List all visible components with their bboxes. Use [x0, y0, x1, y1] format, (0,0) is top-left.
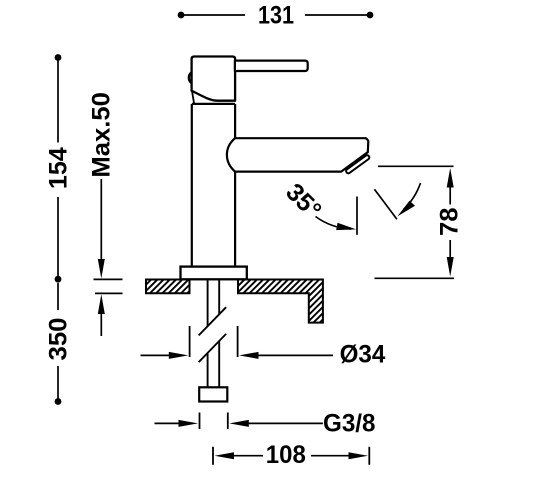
dimension G3/8 left arrow: [155, 420, 199, 427]
pipe break slash 1: [199, 307, 226, 335]
handle joint slanted line: [192, 91, 194, 104]
dimension Max.50 upper arrow: [98, 179, 105, 279]
svg-text:108: 108: [266, 441, 306, 469]
svg-text:78: 78: [436, 207, 464, 236]
svg-text:G3/8: G3/8: [323, 410, 376, 438]
angle 35 leader arc with arrow: [316, 217, 357, 231]
dimension 154/350 line: [57, 58, 59, 402]
svg-text:350: 350: [45, 318, 73, 361]
dimension 108 right arrow: [311, 452, 368, 459]
water stream arc with arrow: [397, 183, 420, 216]
dimension 78 upper arrow: [447, 168, 454, 205]
dimension 131 end dots: [178, 12, 185, 19]
dimension 154/350 dots: [55, 54, 62, 61]
dimension G3/8 extension ticks: [200, 413, 228, 430]
faucet body: [192, 104, 235, 266]
angle 35 vertical reference line: [356, 197, 358, 235]
svg-text:Ø34: Ø34: [340, 341, 386, 369]
svg-text:154: 154: [45, 147, 73, 189]
connection nut: [199, 387, 227, 401]
handle head left button bump: [189, 73, 191, 83]
dimension O34 extension lines: [190, 326, 238, 357]
dimension 108 ticks: [213, 447, 369, 465]
svg-text:131: 131: [258, 2, 294, 30]
supply pipe upper: [208, 280, 220, 327]
dimension 108 left arrow: [215, 452, 264, 459]
countertop left slab: [146, 280, 190, 294]
faucet handle head: [192, 57, 236, 101]
spout: [227, 138, 368, 171]
dimension 78 lower arrow: [447, 240, 454, 277]
handle lever: [235, 61, 308, 71]
svg-text:Max.50: Max.50: [88, 92, 116, 178]
dimension O34 right arrow: [239, 352, 333, 359]
dimension 78 bottom reference line: [375, 277, 455, 279]
dimension 131 line: [184, 14, 368, 16]
base flange: [181, 267, 247, 280]
pipe break slash 2: [199, 334, 226, 362]
dimension 78 top reference line: [378, 165, 454, 167]
dimension Max.50 bottom tick: [95, 292, 123, 294]
water stream direction line: [374, 189, 397, 219]
dimension Max.50 lower arrow: [98, 294, 105, 336]
spout aerator: [345, 154, 370, 174]
supply pipe lower: [208, 341, 220, 387]
dimension G3/8 right arrow: [229, 420, 323, 427]
dimension O34 left arrow: [141, 352, 189, 359]
countertop right slab: [238, 280, 323, 323]
dimension Max.50 top tick: [94, 278, 123, 280]
